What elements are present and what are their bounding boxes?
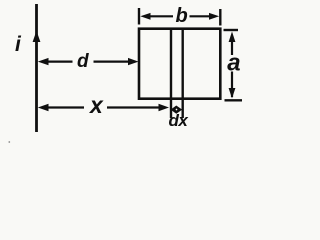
dimension a: top tick — [224, 29, 239, 31]
wire: long straight conductor — [35, 4, 38, 132]
svg-text:dx: dx — [169, 111, 190, 130]
dimension b: left arrowhead — [140, 13, 150, 20]
dimension b: right line segment — [190, 15, 211, 17]
dimension x: left line segment — [48, 106, 84, 108]
dimension b: right arrowhead — [209, 13, 219, 20]
svg-text:b: b — [176, 5, 188, 27]
label x (distance wire to strip) — [88, 92, 104, 118]
svg-text:d: d — [77, 51, 89, 72]
label b (loop width) — [176, 5, 188, 27]
dimension d: right arrowhead at loop edge — [128, 58, 139, 65]
dimension x: right line segment — [107, 106, 159, 108]
dimension b: left line segment — [150, 15, 173, 17]
dimension x: left arrowhead at wire — [38, 104, 49, 111]
strip right boundary line — [181, 29, 183, 118]
dimension b: left tick — [138, 8, 140, 25]
rectangular loop — [139, 29, 220, 99]
dimension d: right line segment — [94, 60, 129, 62]
dimension x: right arrowhead at strip — [159, 104, 170, 111]
dimension a: lower line segment — [231, 72, 233, 98]
dimension a: top arrowhead (up) — [229, 32, 236, 43]
dimension a: bottom arrowhead (down) — [229, 88, 236, 99]
dimension a: bottom tick — [225, 99, 243, 101]
svg-text:a: a — [227, 50, 240, 77]
label a (loop height) — [227, 50, 240, 77]
label i (current) — [15, 33, 22, 56]
paper speck — [8, 141, 10, 143]
svg-text:i: i — [15, 33, 22, 56]
dimension b: right tick — [219, 9, 221, 26]
dimension d: left arrowhead at wire — [38, 58, 49, 65]
dimension a: upper line segment — [231, 42, 233, 56]
dx width marker (double arrow diamond) — [171, 106, 183, 114]
label dx (strip width) — [169, 111, 190, 130]
svg-text:x: x — [88, 92, 104, 118]
dimension d: left line segment — [48, 60, 73, 62]
label d (distance wire to loop) — [77, 51, 89, 72]
current direction arrowhead on wire — [33, 31, 41, 42]
strip left boundary line — [170, 29, 172, 118]
